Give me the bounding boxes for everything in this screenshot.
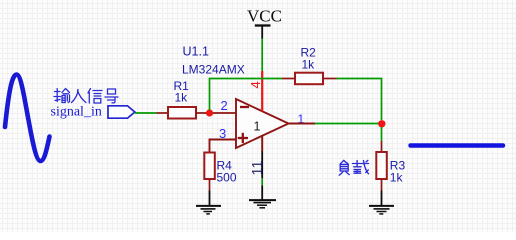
svg-text:11: 11 — [250, 160, 266, 175]
svg-text:signal_in: signal_in — [51, 105, 102, 120]
junction at output node — [378, 120, 385, 127]
char 负 — [339, 160, 349, 175]
op-amp output pin 1 — [289, 123, 316, 125]
svg-text:U1.1: U1.1 — [183, 44, 209, 58]
svg-text:VCC: VCC — [247, 7, 282, 26]
ground symbol below R3 — [369, 191, 394, 214]
svg-text:LM324AMX: LM324AMX — [182, 63, 245, 77]
op-amp power pin 4 — [261, 71, 263, 112]
svg-text:500: 500 — [217, 171, 237, 185]
minus symbol — [240, 106, 249, 108]
char 入 — [72, 90, 87, 103]
ground symbol below R4 — [196, 191, 221, 214]
input sine waveform graphic — [5, 75, 50, 162]
svg-text:1k: 1k — [390, 171, 404, 185]
VCC power symbol — [247, 7, 282, 39]
output waveform graphic (flat line) — [411, 143, 504, 148]
resistor R3 — [376, 141, 387, 191]
wire pin11 to ground — [261, 178, 263, 185]
wire port to R1 — [135, 112, 157, 114]
char 号 — [105, 89, 118, 103]
char 信 — [88, 89, 102, 104]
char 载 — [353, 160, 369, 173]
wire pin3 to R4 — [210, 140, 237, 153]
op-amp U1.1 LM324AMX — [236, 99, 289, 148]
svg-text:4: 4 — [248, 81, 263, 88]
label 负载 (load) — [339, 160, 368, 175]
resistor R2 — [282, 73, 337, 85]
resistor R4 — [204, 153, 215, 191]
wire output node to R3 — [381, 127, 383, 141]
char 输 — [54, 89, 70, 103]
port signal_in — [108, 106, 135, 118]
svg-text:1k: 1k — [175, 90, 189, 104]
wire VCC to op-amp power pin — [261, 39, 263, 72]
resistor R1 — [157, 107, 237, 119]
svg-text:1k: 1k — [302, 58, 316, 72]
feedback wire from R2 down to output node — [337, 79, 382, 121]
junction at inverting input node — [206, 109, 213, 116]
svg-text:2: 2 — [221, 98, 228, 113]
op-amp power pin 11 — [261, 136, 263, 178]
label 输入信号 (input signal) — [54, 89, 118, 104]
plus symbol — [238, 137, 248, 139]
ground symbol below op-amp — [249, 185, 276, 208]
feedback wire up from node to R2 row — [210, 79, 283, 111]
output wire — [315, 123, 382, 125]
svg-text:1: 1 — [254, 120, 261, 134]
